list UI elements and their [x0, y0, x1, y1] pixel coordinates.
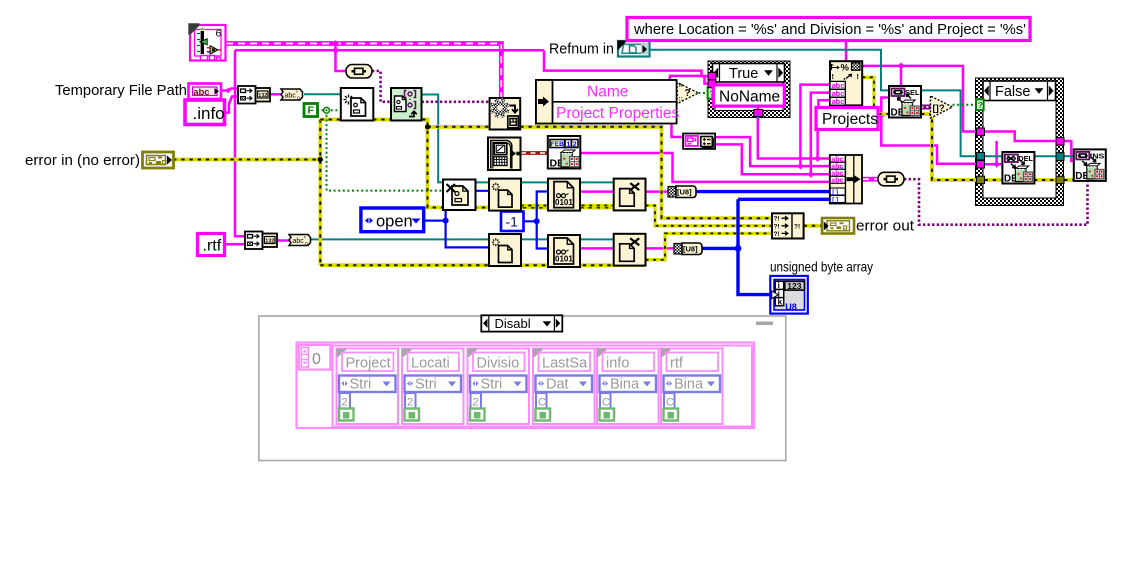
wire read1 string out to byte-array converter 1	[581, 190, 670, 193]
svg-text:rtf: rtf	[670, 356, 684, 372]
wire error row1 segments	[521, 204, 614, 207]
False case tunnels left	[977, 128, 985, 136]
svg-text:Bina: Bina	[674, 377, 704, 393]
svg-text:?: ?	[978, 100, 983, 110]
disabled cluster frame	[333, 346, 753, 427]
svg-text:1: 1	[567, 141, 571, 148]
string constant .info	[185, 100, 225, 125]
string to byte array node 2	[674, 243, 702, 255]
disabled cluster element Locati	[402, 349, 464, 425]
svg-text:[U8]: [U8]	[683, 244, 698, 253]
svg-text:::: ::	[679, 96, 683, 103]
svg-text:[U8]: [U8]	[677, 187, 692, 196]
property node Name / Project Properties	[536, 80, 679, 124]
wire where-constant down to format input	[845, 41, 848, 62]
close file node 2	[614, 234, 646, 266]
svg-text:unsigned byte array: unsigned byte array	[770, 260, 873, 275]
flatten pill 2	[878, 172, 904, 186]
svg-text:info: info	[606, 356, 629, 372]
disabled cluster element rtf	[661, 349, 723, 425]
open file node 1	[489, 179, 521, 211]
string constant .rtf	[198, 234, 225, 256]
svg-text:open: open	[376, 213, 413, 231]
wire error close1 to merge row2	[646, 206, 773, 226]
wire teal through False case to INS	[985, 155, 1057, 157]
svg-text:2: 2	[573, 141, 577, 148]
svg-text:FEB: FEB	[551, 141, 564, 148]
wire NoName to bottom tunnel	[757, 106, 760, 110]
wire format result to False tunnel and SEL query	[863, 66, 978, 132]
svg-text:Projects: Projects	[822, 111, 878, 128]
wire read2 string out to byte-array converter 2	[581, 247, 676, 250]
False case tunnels right	[1056, 138, 1064, 146]
string constant NoName	[713, 85, 784, 106]
svg-text:132: 132	[265, 238, 274, 244]
wire error close2 to merge row3	[646, 233, 773, 259]
wire path teal: string-to-path1 to open/create	[304, 93, 341, 95]
enum constant open	[361, 208, 424, 232]
close file node 1	[614, 179, 646, 211]
svg-text:Dat: Dat	[546, 377, 569, 393]
svg-text:U8: U8	[785, 302, 797, 312]
svg-text:F: F	[308, 105, 315, 117]
wire refnum teal from registration icon down to delete-file and rows	[422, 95, 615, 183]
svg-text:C: C	[538, 397, 546, 409]
case structure False frame	[976, 78, 1064, 206]
svg-text:2: 2	[473, 397, 479, 409]
wire strip2 to string-to-path2	[276, 239, 289, 242]
True case selector terminal	[708, 87, 716, 98]
delete file node	[443, 180, 476, 211]
gear (invoke) node	[490, 98, 521, 130]
svg-text:?!: ?!	[774, 231, 780, 238]
refnum in control	[618, 41, 650, 57]
case structure False header selector	[983, 81, 1056, 101]
strip-path node 1	[238, 86, 270, 104]
wires inside False case (strings)	[985, 132, 1057, 142]
svg-text:123: 123	[787, 281, 801, 291]
svg-text:o: o	[297, 96, 300, 102]
where SQL string constant	[627, 18, 1030, 41]
case structure True frame	[708, 61, 790, 118]
wire byte array 2 to row6 and indicator	[702, 247, 738, 250]
wire error through False case to INS	[985, 178, 1057, 182]
svg-text:Disabl: Disabl	[495, 316, 531, 331]
VI icon constant (slider VI)	[188, 23, 226, 61]
svg-text:where Location = '%s' and Divi: where Location = '%s' and Division = '%s…	[633, 22, 1026, 38]
wire bundle flattened out to pill2 (thick magenta)	[862, 177, 878, 182]
empty array? comparison	[931, 96, 953, 118]
wire DB-date string down to bundle row4	[580, 153, 830, 182]
wire strip1 to string-to-path1	[270, 93, 281, 96]
svg-text:?: ?	[685, 88, 691, 99]
error out indicator	[822, 218, 854, 234]
svg-text:[]?: []?	[933, 103, 945, 114]
error in cluster control	[143, 152, 174, 168]
wire False right tunnel to INS	[1064, 141, 1074, 161]
svg-text:Divisio: Divisio	[477, 356, 520, 372]
open file node 2	[489, 234, 521, 266]
svg-text:2: 2	[407, 397, 413, 409]
wire variant purple pill1 to registration icon	[372, 71, 391, 102]
case structure True header selector	[713, 64, 785, 83]
svg-text:Bina: Bina	[610, 377, 640, 393]
flatten pill 1	[346, 65, 372, 79]
computer (open connection) node	[488, 138, 521, 171]
True case tunnels	[708, 72, 716, 80]
svg-text:Stri: Stri	[481, 377, 503, 393]
svg-text:Stri: Stri	[415, 377, 437, 393]
wire boolean F to open/create and delete-file	[317, 109, 341, 111]
front panel open icon pair	[683, 134, 715, 149]
wire error in to open/create and bottom row	[173, 158, 320, 162]
read from binary file node 1	[548, 179, 580, 211]
svg-text:True: True	[729, 66, 758, 82]
svg-text:error in (no error): error in (no error)	[25, 153, 140, 169]
svg-text:Temporary File Path: Temporary File Path	[55, 83, 187, 99]
svg-text:”: ”	[679, 83, 684, 93]
wire boolean empty-array to False selector	[953, 104, 977, 106]
wire variant purple registration to gear	[422, 101, 491, 104]
unsigned byte array indicator terminal	[770, 276, 808, 314]
svg-text:C: C	[602, 397, 610, 409]
svg-text:6: 6	[216, 28, 222, 40]
wire icon-pair out1 to bundle row2 and format row1	[715, 137, 831, 166]
wire property-node Name to True tunnel 2	[670, 76, 709, 84]
svg-text:abc: abc	[831, 177, 843, 184]
wire icon-pair out2 to bundle row3 and format row2	[715, 144, 831, 174]
wire .info to strip1	[225, 97, 238, 113]
disabled cluster element Project	[337, 349, 399, 425]
registration (array refnum) node	[391, 88, 422, 121]
DB insert node INS	[1074, 149, 1106, 182]
wire Temporary File Path to strip1	[221, 89, 238, 91]
svg-text:!: !	[857, 72, 860, 81]
svg-text:Stri: Stri	[350, 377, 372, 393]
wire branch VI array down to flatten pill	[336, 44, 347, 72]
read from binary file node 2	[548, 235, 580, 267]
format into string node	[830, 61, 862, 106]
wire byte array 1 to concat row5	[696, 190, 830, 193]
wire error format to SEL	[862, 77, 889, 114]
string to byte array node 1	[668, 186, 696, 198]
wire H2 left drop to strip2	[235, 50, 245, 236]
svg-text:LastSa: LastSa	[542, 356, 588, 372]
diagram disable header	[481, 315, 562, 331]
disabled cluster element Divisio	[468, 349, 530, 425]
svg-text:-1: -1	[506, 214, 519, 230]
wire string branch across top (H2)	[235, 49, 544, 52]
svg-text:0101: 0101	[555, 198, 573, 207]
DB date (connection info) node	[548, 136, 581, 170]
svg-text:0: 0	[312, 351, 321, 368]
svg-text:o: o	[305, 241, 308, 247]
svg-text:Name: Name	[587, 84, 628, 101]
svg-text:?!: ?!	[794, 224, 800, 231]
wire H2 right drop to True tunnel 1	[544, 50, 709, 76]
wire connection red monitor to DB-date	[521, 151, 548, 155]
svg-text:[ ]: [ ]	[832, 190, 838, 196]
svg-text:Project Properties: Project Properties	[556, 105, 679, 122]
svg-text:Locati: Locati	[411, 356, 450, 372]
svg-text:abc: abc	[832, 97, 845, 106]
disabled array frame	[297, 343, 755, 429]
numeric constant -1	[501, 212, 524, 232]
wire property node value down to FP icon-pair	[672, 124, 685, 138]
wire .rtf to strip2	[224, 243, 245, 246]
string-to-path node 1	[281, 89, 303, 102]
svg-text:Project: Project	[346, 356, 391, 372]
svg-text:?!: ?!	[774, 216, 780, 223]
wire error open/create to delete-file, open1, gear	[373, 120, 614, 208]
open/create/replace file node	[341, 88, 374, 121]
wire error SEL to False tunnel	[921, 114, 977, 180]
svg-text:.rtf: .rtf	[203, 238, 222, 255]
svg-text:abc: abc	[193, 87, 209, 98]
wire Projects top to format row3	[818, 100, 830, 107]
wire -1 to read counts	[524, 221, 550, 248]
string-to-path node 2	[289, 235, 311, 248]
svg-text:C: C	[666, 397, 674, 409]
svg-text:error out: error out	[856, 219, 914, 235]
Temporary File Path string control	[189, 84, 222, 100]
build cluster array node	[830, 155, 862, 204]
svg-text:!: !	[832, 72, 835, 81]
wire refnum in teal to False tunnel	[650, 50, 977, 157]
wire open mode enum to open1 open2	[424, 221, 490, 248]
wire string-array from VI icon to gear (thick magenta)	[226, 44, 501, 99]
wire boolean empty-string to True selector	[698, 92, 707, 94]
svg-text:132: 132	[258, 93, 267, 99]
svg-text:2: 2	[342, 397, 348, 409]
DB delete node DEL	[1002, 152, 1034, 185]
wire recordset purple SEL to empty-array check	[921, 105, 931, 110]
disabled cluster element LastSa	[533, 349, 595, 425]
wire True bottom tunnel to bundle row1 / Projects	[758, 117, 830, 159]
svg-text:NoName: NoName	[719, 89, 780, 106]
wire error gear to property node to merge row1	[520, 127, 772, 218]
False case selector terminal	[976, 99, 984, 110]
disabled array index	[299, 345, 331, 370]
strip-path node 2	[245, 232, 277, 250]
string constant Projects	[816, 108, 878, 130]
svg-text:Refnum in: Refnum in	[549, 42, 614, 58]
svg-text:[ ]: [ ]	[832, 197, 838, 203]
wire error merge to error out	[804, 224, 822, 228]
wire variant purple pill2 to INS	[904, 179, 1088, 225]
diagram disable structure frame	[259, 316, 786, 461]
svg-text:%: %	[841, 63, 850, 74]
wire tunnel stubs to NoName	[713, 75, 716, 78]
svg-text:k: k	[778, 298, 783, 307]
svg-text:?!: ?!	[774, 223, 780, 230]
junction diamonds on VI wire	[332, 40, 339, 47]
svg-text:.info: .info	[193, 104, 225, 123]
DB select node SEL	[889, 86, 921, 119]
wire Projects to SEL table and DEL tunnel	[878, 98, 889, 116]
boolean constant F	[304, 104, 318, 117]
empty string? comparison	[677, 82, 698, 103]
svg-text:False: False	[995, 84, 1030, 100]
merge errors node	[772, 213, 804, 238]
disabled cluster element info	[597, 349, 659, 425]
svg-text:0101: 0101	[555, 255, 573, 264]
